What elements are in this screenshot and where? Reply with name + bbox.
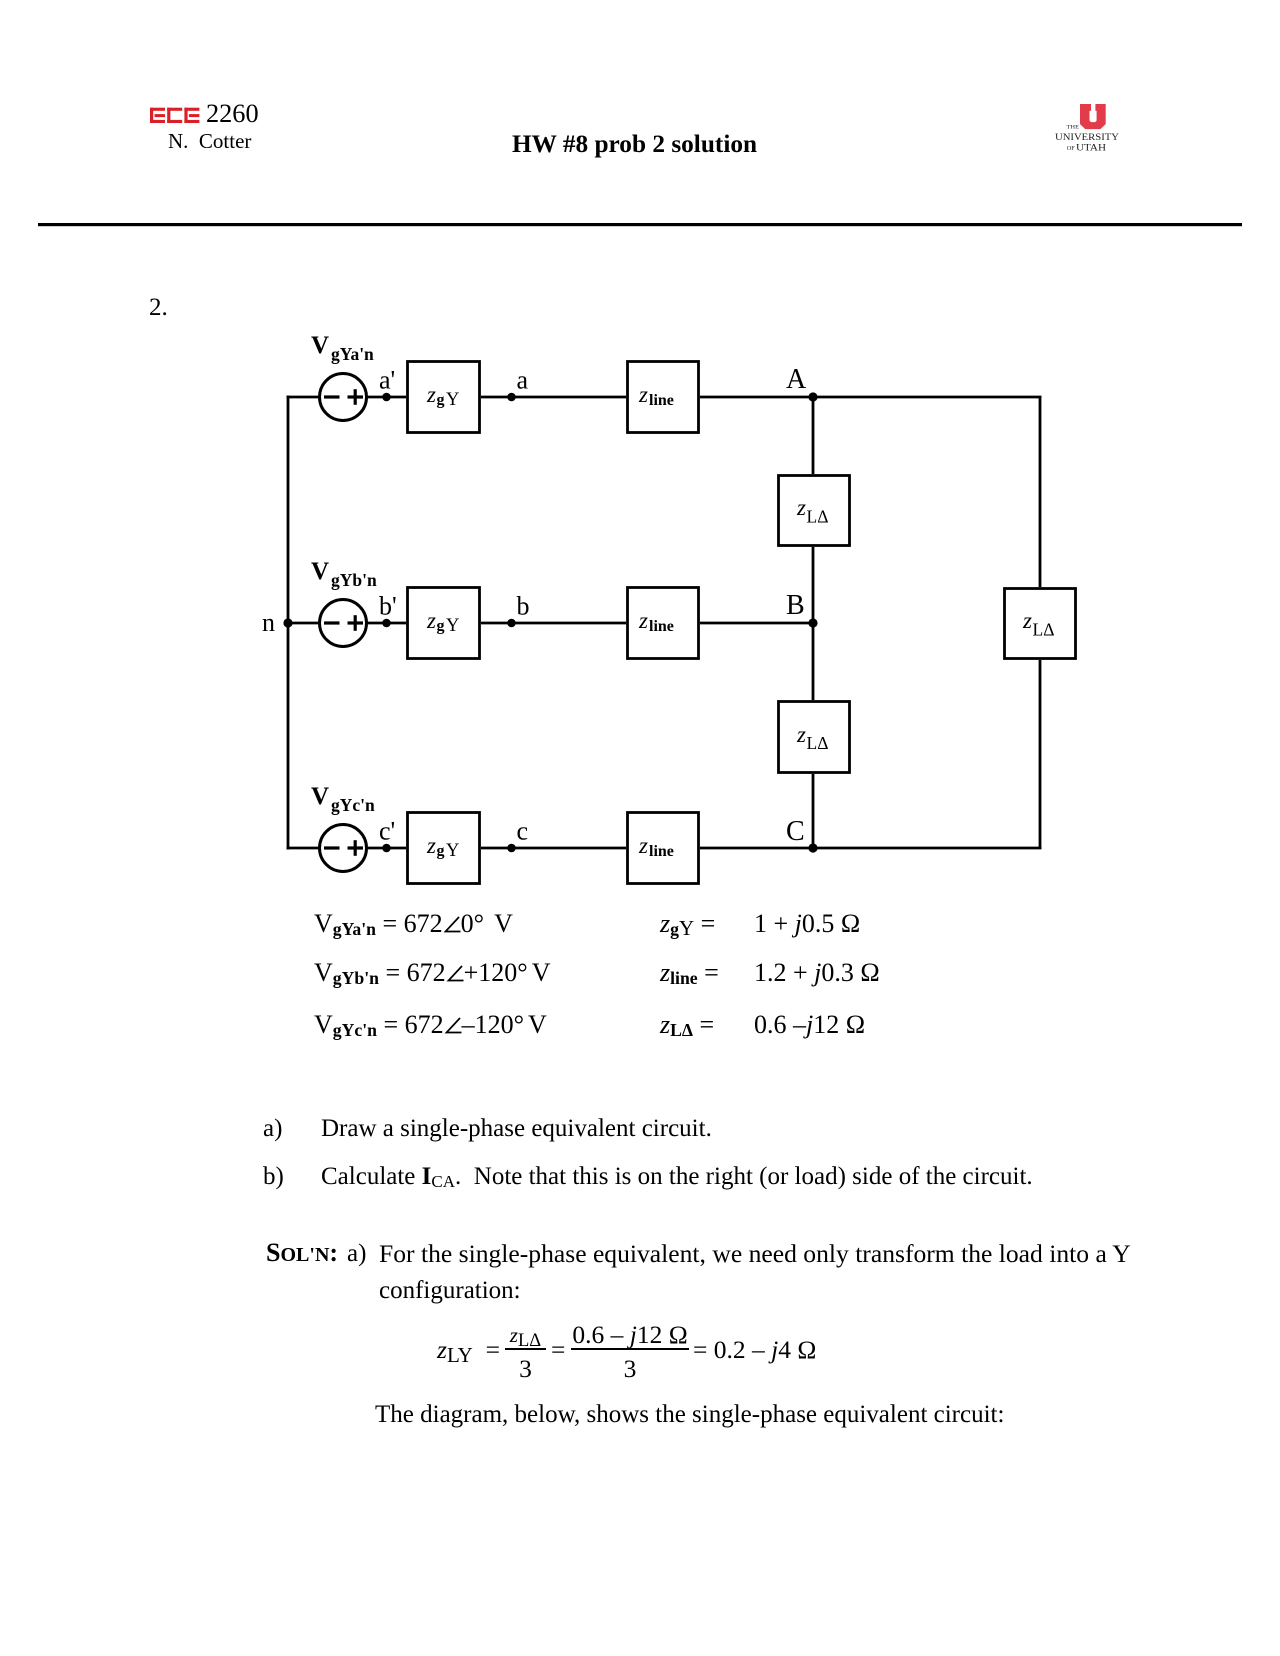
load impedance box zLD (B-C) — [779, 702, 850, 773]
University of Utah block-U logo — [1080, 104, 1106, 129]
label VgYa'n source name — [311, 332, 374, 364]
svg-text:OF: OF — [1067, 145, 1075, 152]
svg-text:z: z — [426, 833, 436, 858]
svg-text:B: B — [786, 590, 805, 621]
svg-text:C: C — [786, 816, 805, 847]
course number text "2260" — [206, 101, 259, 127]
voltage source VgYb'n — [320, 600, 367, 647]
solution label SOL'N: — [266, 1240, 338, 1266]
node a' — [379, 366, 395, 402]
node B — [786, 590, 818, 628]
svg-text:a: a — [517, 366, 529, 395]
closing sentence — [375, 1402, 1004, 1427]
wire right branch down from A — [1039, 397, 1042, 587]
wire bus to source a — [287, 396, 320, 399]
svg-text:THE: THE — [1067, 125, 1080, 131]
label VgYc'n source name — [311, 783, 375, 815]
solution equation zLY — [437, 1337, 500, 1363]
problem number "2." — [149, 295, 168, 320]
svg-text:c': c' — [379, 817, 395, 846]
author name "N. Cotter" — [168, 131, 251, 152]
svg-text:c: c — [517, 817, 529, 846]
wire zgY to zline row c — [481, 847, 626, 850]
svg-text:z: z — [426, 382, 436, 407]
node c — [507, 817, 528, 853]
svg-text:g: g — [437, 618, 445, 635]
svg-text:b': b' — [379, 592, 397, 621]
node a — [507, 366, 528, 402]
impedance box zline row c — [628, 813, 699, 884]
svg-text:g: g — [437, 843, 445, 860]
wire right branch from box down to C — [1039, 660, 1042, 848]
item b) prompt — [263, 1164, 284, 1189]
wire B down to bottom load box — [812, 623, 815, 700]
svg-text:z: z — [426, 608, 436, 633]
svg-text:Y: Y — [446, 841, 459, 861]
svg-text:line: line — [649, 618, 674, 635]
svg-text:gYa'n: gYa'n — [331, 344, 374, 364]
wire zline to node A and on to right branch (top) — [700, 396, 1042, 399]
svg-text:z: z — [638, 608, 648, 633]
voltage source VgYc'n — [320, 825, 367, 872]
svg-text:Y: Y — [446, 390, 459, 410]
svg-text:gYc'n: gYc'n — [331, 795, 375, 815]
label VgYb'n source name — [311, 558, 377, 590]
equation VgYa'n value — [314, 911, 513, 937]
wire zgY to zline row b — [481, 622, 626, 625]
svg-text:z: z — [1022, 608, 1032, 633]
load impedance box zLD (C-A right branch) — [1005, 589, 1076, 659]
wire source to zgY box row c — [368, 847, 407, 850]
impedance box zgY row b — [408, 588, 480, 659]
load impedance box zLD (A-B) — [779, 476, 850, 546]
voltage source VgYa'n — [320, 374, 367, 421]
wire bottom load box to C — [812, 774, 815, 848]
wire zline to node B — [700, 622, 813, 625]
svg-text:V: V — [311, 332, 329, 359]
wire bus to source c — [287, 847, 320, 850]
svg-text:b: b — [517, 592, 530, 621]
svg-text:UTAH: UTAH — [1076, 142, 1106, 153]
svg-text:g: g — [437, 392, 445, 409]
svg-text:Y: Y — [446, 616, 459, 636]
impedance box zline row a — [628, 362, 699, 433]
svg-text:n: n — [262, 608, 275, 637]
node C — [786, 816, 818, 853]
wire zgY to zline row a — [481, 396, 626, 399]
svg-text:z: z — [638, 382, 648, 407]
svg-text:LΔ: LΔ — [807, 507, 829, 527]
svg-text:z: z — [796, 495, 806, 520]
svg-text:V: V — [311, 558, 329, 585]
svg-text:LΔ: LΔ — [807, 733, 829, 753]
svg-text:LΔ: LΔ — [1033, 620, 1055, 640]
equation zline value — [660, 960, 719, 986]
node c' — [379, 817, 395, 853]
wire source to zgY box row a — [368, 396, 407, 399]
svg-text:line: line — [649, 843, 674, 860]
wire left neutral bus vertical — [287, 396, 290, 850]
title "HW #8 prob 2 solution" — [512, 132, 757, 157]
svg-text:a': a' — [379, 366, 395, 395]
svg-text:gYb'n: gYb'n — [331, 570, 377, 590]
wire A down to top load box — [812, 397, 815, 474]
svg-text:z: z — [638, 833, 648, 858]
node b — [507, 592, 529, 628]
svg-text:V: V — [311, 783, 329, 810]
equation VgYc'n value — [314, 1012, 547, 1038]
impedance box zgY row c — [408, 813, 480, 884]
svg-text:A: A — [786, 364, 807, 395]
svg-text:line: line — [649, 392, 674, 409]
impedance box zline row b — [628, 588, 699, 659]
node n (neutral) — [262, 608, 293, 637]
impedance box zgY row a — [408, 362, 480, 433]
wire bus to source b — [287, 622, 320, 625]
equation zLD value — [660, 1012, 714, 1038]
wire top load box to B — [812, 547, 815, 623]
node b' — [379, 592, 397, 628]
horizontal header rule — [38, 223, 1242, 226]
node A — [786, 364, 818, 402]
svg-text:UNIVERSITY: UNIVERSITY — [1055, 132, 1119, 143]
svg-text:z: z — [796, 722, 806, 747]
equation VgYb'n value — [314, 960, 550, 986]
equation zgY value — [660, 911, 715, 937]
wire source to zgY box row b — [368, 622, 407, 625]
item a) prompt — [263, 1116, 282, 1141]
wire zline to node C and on to right branch (bottom) — [700, 847, 1042, 850]
ECE department logo (red) — [150, 108, 199, 123]
